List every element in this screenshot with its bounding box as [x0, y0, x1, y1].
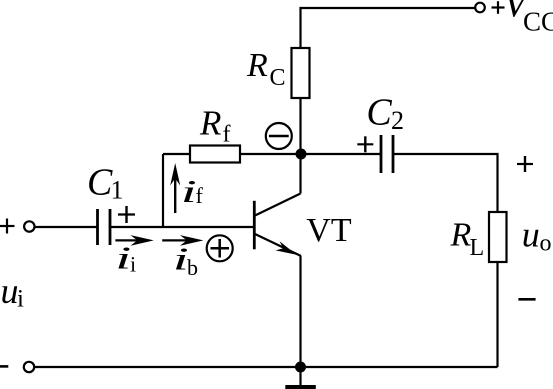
- terminal input bottom: [24, 362, 34, 372]
- svg-text:L: L: [470, 235, 485, 261]
- wire: C2 to output corner and down: [394, 154, 498, 212]
- label if: [181, 174, 204, 210]
- svg-text:i: i: [130, 252, 136, 277]
- svg-text:i: i: [115, 240, 131, 276]
- label Rf: [199, 104, 231, 148]
- wire: collector vertical: [299, 154, 301, 194]
- wire: collector node to C2: [301, 153, 380, 155]
- svg-text:f: f: [196, 183, 204, 208]
- label C1: [87, 162, 124, 205]
- label - (input lower terminal polarity): [0, 365, 8, 368]
- resistor RC: [292, 48, 310, 98]
- wire: input to C1: [35, 226, 97, 228]
- terminal Vcc: [475, 3, 485, 13]
- svg-text:R: R: [246, 47, 268, 84]
- capacitor C2: [381, 135, 393, 173]
- wire: bottom rail: [35, 366, 498, 368]
- wire: emitter vertical down: [299, 256, 301, 367]
- label +Vcc: [492, 0, 553, 37]
- circled plus (base phase): [207, 235, 233, 261]
- label RC: [246, 47, 286, 91]
- transistor VT: [254, 194, 301, 257]
- ground: [285, 367, 316, 389]
- label ib: [173, 241, 198, 280]
- svg-text:i: i: [17, 286, 24, 313]
- svg-text:o: o: [540, 231, 552, 257]
- label VT: [306, 212, 352, 249]
- label + (input upper terminal polarity): [0, 219, 15, 234]
- svg-text:R: R: [450, 217, 472, 254]
- svg-text:b: b: [187, 255, 198, 280]
- terminal input top: [24, 221, 34, 231]
- label RL: [450, 217, 485, 262]
- wire: feedback left lead to Rf: [163, 153, 190, 155]
- svg-text:f: f: [223, 122, 231, 148]
- label - (output polarity): [518, 298, 535, 301]
- resistor Rf: [190, 146, 240, 163]
- node: collector junction dot: [296, 149, 307, 160]
- label C2: [366, 92, 404, 136]
- svg-text:2: 2: [391, 106, 404, 135]
- wire: feedback vertical down to base wire: [162, 154, 164, 227]
- svg-text:C: C: [366, 92, 392, 134]
- label + (C2 polarity): [357, 136, 373, 152]
- label + (C1 polarity): [118, 206, 135, 223]
- svg-text:R: R: [199, 104, 221, 143]
- svg-text:i: i: [181, 174, 197, 210]
- label ui: [1, 271, 25, 313]
- svg-text:C: C: [270, 65, 286, 91]
- wire: Rf to collector node: [240, 153, 301, 155]
- capacitor C1: [98, 209, 111, 245]
- wire: C1 to base: [111, 226, 253, 228]
- svg-text:VT: VT: [306, 212, 352, 249]
- arrow if (feedback current): [170, 163, 180, 213]
- svg-text:u: u: [522, 214, 540, 254]
- resistor RL: [489, 212, 507, 262]
- label ii: [115, 240, 136, 276]
- wire: RL bottom down to bottom rail: [496, 262, 498, 367]
- arrow ii (input current): [115, 235, 153, 246]
- wire: RC bottom to collector node: [299, 98, 301, 154]
- arrow ib (base current): [162, 235, 203, 246]
- label + (output polarity): [517, 156, 533, 172]
- svg-text:CC: CC: [523, 7, 553, 37]
- circled minus (collector phase): [266, 123, 292, 149]
- label uo: [522, 214, 552, 256]
- svg-text:C: C: [87, 162, 113, 204]
- svg-text:u: u: [1, 271, 19, 311]
- svg-text:1: 1: [111, 176, 124, 205]
- node: emitter/ground junction dot: [295, 362, 306, 373]
- wire: top rail from RC up and right to Vcc terminal: [301, 8, 475, 48]
